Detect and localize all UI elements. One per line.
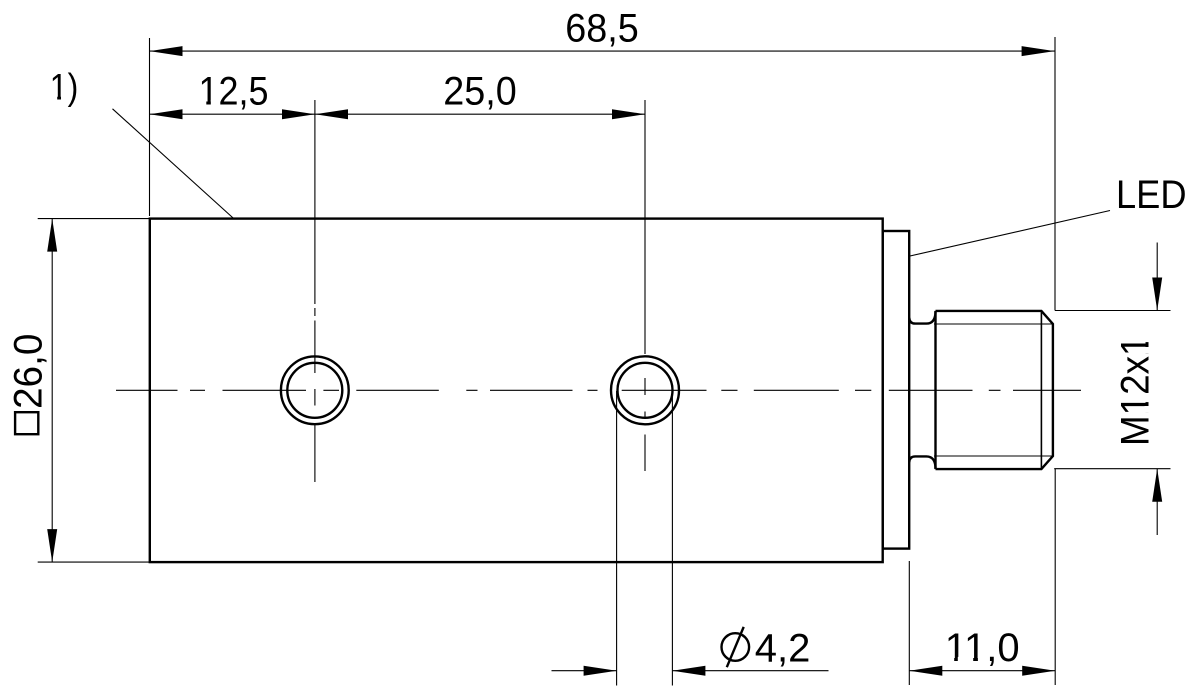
diameter 4,2 dimension line: [552, 670, 829, 672]
dimension 11,0 line: [909, 670, 1055, 672]
dimension 68,5 arrow right: [1022, 46, 1055, 56]
hole 2 vertical centerline: [644, 100, 646, 471]
dimension 25,0 arrow right: [612, 109, 645, 119]
hole 1 outer circle: [281, 356, 349, 424]
svg-text:LED: LED: [1116, 173, 1187, 217]
thread minor diameter lines: [934, 324, 1053, 456]
svg-text:1): 1): [50, 67, 79, 108]
dimension 11,0 extension line right: [1054, 469, 1056, 685]
diameter symbol circle: [722, 633, 750, 661]
dimension 25,0 arrow left: [315, 109, 348, 119]
dimension 12,5 arrow right: [282, 109, 315, 119]
sensor body outline: [150, 219, 883, 562]
svg-text:12,5: 12,5: [199, 69, 269, 113]
hole 2 inner circle: [618, 363, 673, 418]
hole 2 outer circle: [611, 356, 679, 424]
svg-text:M12x1: M12x1: [1114, 336, 1158, 447]
dimension 26,0 extension line bottom: [38, 561, 151, 563]
dimension 12,5 line and 25,0 line: [150, 113, 646, 115]
diameter 4,2 arrow left: [584, 666, 617, 676]
dimension 26,0 arrow top: [47, 219, 57, 252]
svg-text:25,0: 25,0: [443, 69, 517, 113]
M12 thread outline: [936, 311, 1053, 469]
diameter 4,2 arrow right: [672, 666, 705, 676]
svg-text:11,0: 11,0: [945, 626, 1020, 670]
dimension 11,0 arrow right: [1022, 666, 1055, 676]
dimension 11,0 extension line left: [908, 561, 910, 685]
svg-text:26,0: 26,0: [6, 334, 50, 410]
dimension 26,0 arrow bottom: [47, 529, 57, 562]
hole 1 vertical centerline: [314, 100, 316, 482]
glyph foot masks for digit 1 (match target font style): [51, 96, 1150, 663]
svg-text:4,2: 4,2: [755, 626, 811, 670]
dimension M12x1 arrow bottom: [1152, 469, 1162, 502]
dimension 26,0 extension line top: [38, 218, 151, 220]
neck groove top: [909, 311, 935, 323]
end flange: [883, 231, 910, 549]
dimension M12x1 line top tail: [1156, 243, 1158, 311]
hole 1 inner circle: [287, 363, 342, 418]
dimension 26,0 line: [51, 219, 53, 562]
dimension 68,5 extension line right: [1054, 37, 1056, 311]
dimension 12,5 arrow left: [150, 109, 183, 119]
diameter 4,2 extension line left: [616, 391, 618, 686]
dimension 68,5 line: [150, 50, 1055, 52]
horizontal centerline: [116, 389, 1081, 391]
dimension M12x1 line bottom tail: [1156, 469, 1158, 535]
LED leader line: [910, 211, 1110, 257]
dimension M12x1 extension line top: [1055, 310, 1171, 312]
svg-text:68,5: 68,5: [565, 7, 639, 51]
diameter symbol slash: [727, 627, 744, 667]
dimension 68,5 extension line left: [149, 38, 151, 216]
dimension 11,0 arrow left: [909, 666, 942, 676]
dimension 68,5 arrow left: [150, 46, 183, 56]
square symbol of 26,0: [15, 412, 38, 434]
footnote 1) leader line: [113, 109, 234, 219]
neck groove bottom: [909, 456, 935, 468]
diameter 4,2 extension line right: [671, 391, 673, 686]
thread chamfer junction line: [1040, 311, 1042, 469]
dimension M12x1 arrow top: [1152, 278, 1162, 311]
dimension M12x1 extension line bottom: [1054, 468, 1170, 470]
